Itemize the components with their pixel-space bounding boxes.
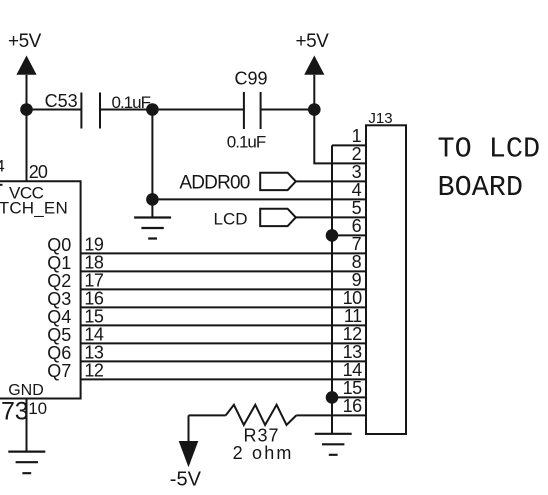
svg-text:Q2: Q2	[47, 271, 71, 291]
svg-text:Q7: Q7	[47, 361, 71, 381]
IC latch 74HC573 box (left edge off-canvas)	[0, 181, 81, 398]
wire ground branch vertical from rail junction down	[151, 110, 153, 218]
svg-text:10: 10	[28, 399, 47, 418]
svg-text:J13: J13	[368, 110, 392, 127]
wire LCD to J13 pin 5	[296, 216, 366, 218]
svg-text:10: 10	[343, 288, 363, 308]
svg-text:73: 73	[1, 398, 28, 426]
svg-text:+5V: +5V	[296, 31, 330, 52]
IC pin name overline fragment (clipped at canvas edge)	[0, 184, 3, 186]
wire ADDR00 to J13 pin 3	[296, 180, 366, 182]
svg-text:14: 14	[343, 360, 363, 380]
svg-text:1: 1	[352, 126, 362, 146]
wire +5V left stem down to IC pin 20	[26, 75, 28, 182]
svg-text:11: 11	[344, 306, 362, 326]
power +5V right symbol (triangle)	[304, 56, 324, 75]
svg-text:GND: GND	[8, 382, 44, 399]
wire Q1 to J13 pin 8	[81, 270, 366, 272]
svg-text:8: 8	[352, 252, 362, 272]
wire Q7 to J13 pin 14	[81, 378, 366, 380]
wire IC GND pin 10 stem	[26, 399, 28, 452]
junction dot pin4 ground branch	[146, 193, 159, 206]
svg-text:5: 5	[352, 198, 362, 218]
svg-text:15: 15	[343, 378, 363, 398]
wire Q5 to J13 pin 12	[81, 342, 366, 344]
power -5V symbol (triangle pointing down)	[179, 441, 199, 467]
J13 pin 1 stub	[332, 144, 366, 146]
capacitor C53 plates	[81, 93, 100, 129]
svg-text:16: 16	[84, 289, 104, 309]
svg-text:+5V: +5V	[8, 31, 42, 52]
svg-text:2: 2	[352, 144, 362, 164]
wire Q4 to J13 pin 11	[81, 324, 366, 326]
wire Q6 to J13 pin 13	[81, 360, 366, 362]
svg-text:14: 14	[84, 325, 104, 345]
signal flag ADDR00	[260, 173, 296, 190]
power +5V left symbol (triangle)	[16, 56, 36, 75]
wire Q2 to J13 pin 9	[81, 288, 366, 290]
svg-text:4: 4	[0, 156, 5, 175]
ground symbol under connector J13	[315, 434, 352, 455]
svg-text:Q5: Q5	[47, 325, 71, 345]
svg-text:13: 13	[343, 342, 363, 362]
svg-text:LATCH_EN: LATCH_EN	[0, 199, 68, 218]
svg-text:13: 13	[84, 343, 104, 363]
svg-text:9: 9	[352, 270, 362, 290]
svg-text:Q1: Q1	[47, 253, 71, 273]
svg-text:Q3: Q3	[47, 289, 71, 309]
svg-text:TO LCD: TO LCD	[438, 133, 541, 166]
svg-text:-5V: -5V	[170, 468, 202, 490]
svg-text:19: 19	[84, 235, 104, 255]
svg-text:2 ohm: 2 ohm	[233, 443, 294, 463]
svg-text:18: 18	[84, 253, 104, 273]
svg-text:Q6: Q6	[47, 343, 71, 363]
junction dot J13 pin 15	[326, 391, 339, 404]
svg-text:12: 12	[343, 324, 363, 344]
svg-text:Q0: Q0	[47, 235, 71, 255]
svg-text:16: 16	[343, 396, 363, 416]
J13 pin 15 stub	[332, 396, 366, 398]
svg-text:4: 4	[352, 180, 362, 200]
junction dot on rail between C53 and C99	[146, 103, 159, 116]
svg-text:12: 12	[84, 361, 104, 381]
signal flag LCD	[260, 209, 296, 226]
ground symbol middle (under rail junction)	[134, 218, 171, 239]
wire R37 right lead to J13 pin 16	[296, 414, 366, 416]
svg-text:6: 6	[352, 216, 362, 236]
junction dot on rail at +5V right	[308, 103, 321, 116]
svg-text:ADDR00: ADDR00	[179, 173, 249, 194]
svg-text:17: 17	[84, 271, 104, 291]
wire -5V stem	[188, 415, 190, 441]
svg-text:C53: C53	[45, 91, 78, 111]
svg-text:BOARD: BOARD	[438, 171, 524, 204]
svg-text:C99: C99	[235, 68, 268, 88]
wire Q3 to J13 pin 10	[81, 306, 366, 308]
wire rail segment C53 right plate to C99 left plate through junction	[100, 109, 244, 111]
svg-text:0.1uF: 0.1uF	[112, 93, 151, 112]
capacitor C99 plates	[244, 92, 261, 129]
wire rail segment C99 right plate to +5V right junction	[261, 109, 315, 111]
svg-text:15: 15	[84, 307, 104, 327]
svg-text:Q4: Q4	[47, 307, 71, 327]
wire to J13 pin 4	[152, 198, 366, 200]
junction dot J13 pin 6	[326, 229, 339, 242]
wire R37 left lead from -5V stem	[189, 414, 226, 416]
connector J13 body rectangle	[366, 125, 406, 434]
svg-text:0.1uF: 0.1uF	[227, 133, 266, 152]
svg-text:LCD: LCD	[214, 210, 248, 229]
junction dot on rail at +5V left	[20, 103, 33, 116]
svg-text:3: 3	[352, 162, 362, 182]
J13 pin 6 stub	[332, 234, 366, 236]
svg-text:7: 7	[352, 234, 362, 254]
wire +5V rail segment left (+5V dot to C53 left plate)	[27, 109, 82, 111]
resistor R37 zigzag	[226, 405, 297, 425]
svg-text:20: 20	[29, 162, 48, 182]
wire Q0 to J13 pin 7	[81, 252, 366, 254]
ground symbol under IC pin 10	[8, 452, 45, 474]
connector ground bus vertical line	[331, 145, 333, 433]
wire +5V right stem down then to J13 pin 2	[314, 75, 366, 164]
